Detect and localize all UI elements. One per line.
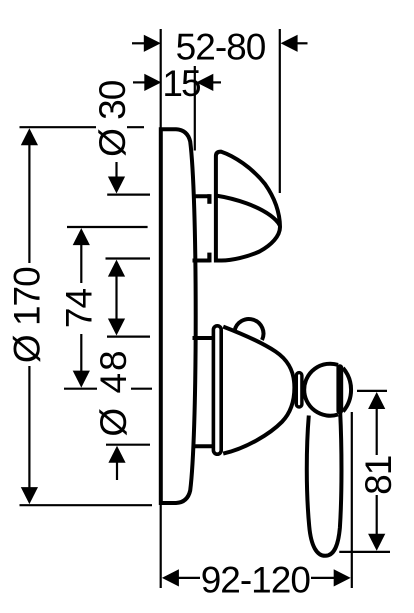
svg-text:92-120: 92-120 (201, 560, 311, 601)
dimension Ø170 top tick (20, 126, 145, 128)
dimension Ø30 upper arrow (108, 158, 125, 194)
dome cap seam arc (215, 195, 280, 225)
svg-text:15: 15 (162, 63, 201, 104)
upper valve sleeve bottom line (193, 259, 211, 263)
projection extension line right (52-80) (279, 29, 281, 193)
dimension 74 line with arrows (73, 228, 90, 388)
Ø48 top tick (bell stem top) (107, 336, 150, 338)
dimension 74 bottom tick (lower handle centerline) (64, 388, 152, 390)
dimension 15 left arrow (133, 74, 161, 91)
Ø48 bottom tick (bell stem bottom) (106, 444, 150, 446)
lower stem bottom line (193, 444, 214, 448)
dimension 81 line with arrows (368, 392, 385, 551)
svg-text:74: 74 (59, 289, 100, 329)
lever hub ball (304, 364, 338, 416)
temperature stop bump (235, 319, 264, 340)
Ø30 top tick (sleeve top edge) (107, 194, 150, 196)
dimension Ø170 bottom tick (20, 504, 153, 506)
lever tip extension line (351, 412, 353, 588)
lower stem top line (193, 336, 214, 340)
dimension 81 bottom tick (lever end) (339, 551, 390, 553)
lever hub end cap bar (336, 364, 343, 414)
dimension 52-80 right arrow (281, 35, 308, 52)
wall extension line bottom (160, 505, 162, 588)
svg-text:81: 81 (358, 456, 399, 495)
Ø48 lower arrow (108, 446, 125, 480)
plate-front extension line (15) (194, 66, 196, 151)
lever hub end cap arc (343, 368, 351, 412)
white boxes under rotated labels (9, 264, 45, 366)
svg-text:Ø 48: Ø 48 (93, 348, 134, 436)
dimension 15 right arrow (196, 74, 221, 91)
dome cap (shut-off handle) silhouette (216, 152, 280, 261)
dimension Ø170 line with arrows (21, 128, 38, 504)
svg-text:Ø 30: Ø 30 (92, 80, 133, 157)
dimension 52-80 left arrow (132, 35, 161, 52)
lever handle (307, 413, 342, 556)
dimension 81 top tick (lever hub centerline) (357, 390, 387, 392)
neck between bell and lever hub (296, 373, 302, 407)
back-to-back arrows between Ø30 and Ø48 (108, 260, 125, 336)
thermostat bell (handle body) (223, 327, 294, 454)
sleeve-cap step bottom (207, 253, 211, 263)
wall extension line top (160, 29, 162, 128)
upper valve sleeve top line (193, 194, 211, 198)
Ø30 bottom tick (sleeve bottom edge) (106, 257, 151, 259)
dimension 74 top tick (upper handle centerline) (67, 226, 148, 228)
svg-text:52-80: 52-80 (176, 27, 266, 68)
escutcheon plate (side profile) (161, 129, 196, 503)
sleeve-cap step top (207, 194, 211, 204)
svg-text:Ø 170: Ø 170 (6, 267, 47, 363)
dimension 92-120 line with arrows (162, 569, 351, 586)
bell base flange (213, 326, 221, 454)
